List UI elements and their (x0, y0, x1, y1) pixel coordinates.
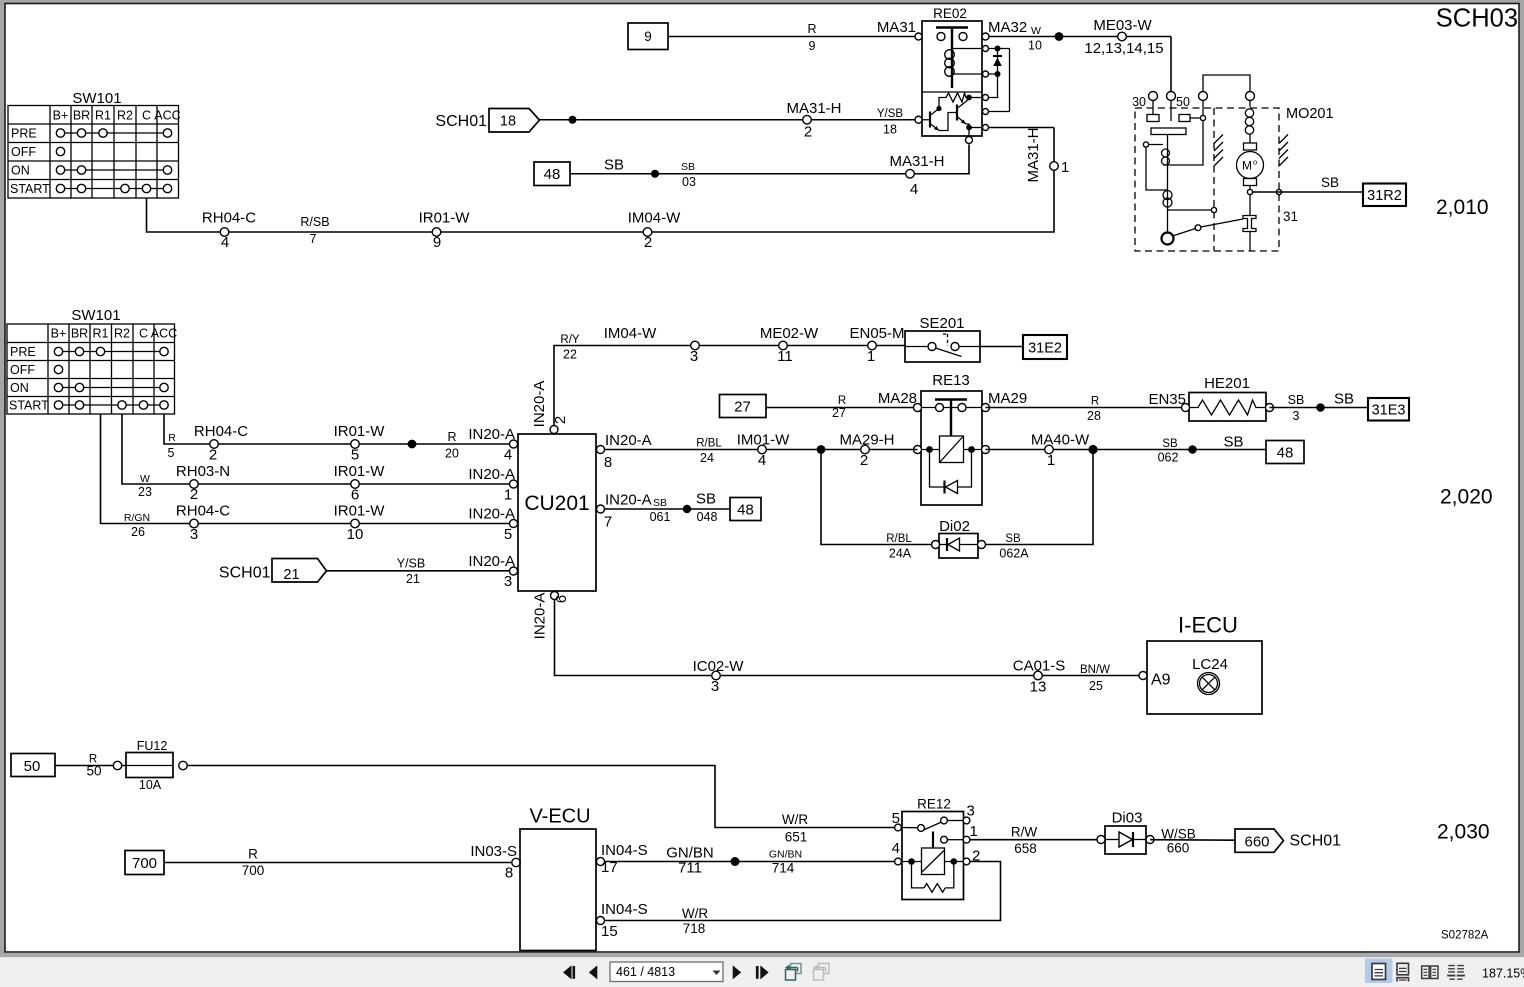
svg-text:3: 3 (190, 526, 198, 543)
starter motor assembly MO201 (1132, 75, 1333, 251)
wire IN20-A / SB 061 from CU201 pin 7 to box 48 (605, 508, 731, 510)
svg-text:ON: ON (10, 381, 29, 395)
RE13 coil (921, 449, 940, 451)
svg-text:SE201: SE201 (919, 315, 964, 332)
svg-text:START: START (9, 399, 49, 413)
SECTION-2030 (11, 739, 1490, 951)
svg-text:R/SB: R/SB (300, 215, 329, 229)
svg-text:IN20-A: IN20-A (468, 553, 515, 570)
svg-text:13: 13 (1030, 679, 1047, 696)
svg-text:7: 7 (310, 232, 317, 246)
RE12 pin 3 (941, 817, 948, 824)
RE12 pin 1 contact (941, 836, 948, 843)
svg-text:Di03: Di03 (1112, 810, 1143, 827)
node RH04-C pin 2 (194, 423, 248, 464)
svg-text:Y/SB: Y/SB (877, 108, 904, 120)
wire label R/BL 24A (886, 533, 912, 561)
MO201 solenoid plunger (1151, 128, 1186, 135)
connector box 27 (720, 395, 767, 418)
MO201 bridge terminals (1199, 92, 1208, 101)
RE12 pin 2 (963, 858, 970, 865)
svg-text:31E2: 31E2 (1028, 341, 1062, 357)
svg-text:5: 5 (504, 526, 512, 543)
svg-text:SB: SB (653, 497, 667, 509)
svg-text:8: 8 (505, 865, 513, 882)
wire R/GN 26 from SW101 R1 to CU201 pin 5 (101, 414, 511, 524)
connector box 48 (ground) (1266, 441, 1304, 464)
svg-text:V-ECU: V-ECU (529, 806, 590, 828)
svg-text:MA31-H: MA31-H (1025, 127, 1042, 182)
svg-text:21: 21 (283, 567, 299, 583)
svg-text:21: 21 (406, 572, 420, 586)
RE02 coil (951, 50, 953, 88)
svg-text:4: 4 (758, 452, 766, 469)
svg-text:OFF: OFF (10, 363, 35, 377)
wire label R/SB 7 (300, 215, 329, 246)
svg-text:30: 30 (1132, 95, 1146, 109)
svg-text:6: 6 (351, 487, 359, 504)
MO201 case ground hatching (1214, 135, 1223, 167)
wire label R 20 (445, 430, 459, 461)
svg-text:IN20-A: IN20-A (468, 466, 515, 483)
relay RE02 (preheating relay) (915, 6, 1054, 144)
svg-text:22: 22 (563, 348, 577, 362)
relay RE13 (glow control relay) (914, 372, 990, 505)
svg-text:R/W: R/W (1011, 825, 1038, 840)
svg-text:18: 18 (883, 123, 897, 137)
pin label IN20-A 5 (468, 506, 517, 544)
svg-text:ON: ON (11, 164, 30, 178)
svg-text:2: 2 (190, 486, 198, 503)
svg-text:RE12: RE12 (917, 797, 951, 812)
svg-text:660: 660 (1244, 834, 1269, 851)
connector box 9 (628, 23, 668, 50)
svg-text:IN20-A: IN20-A (468, 426, 515, 443)
junction dot on W 10 wire (1055, 32, 1064, 41)
svg-text:SB: SB (681, 161, 695, 173)
wire R 28 from RE13 MA29 to HE201 EN35 (986, 396, 1186, 424)
svg-text:4: 4 (221, 234, 229, 251)
junction dot to Di02 branch right (1088, 445, 1097, 454)
wire label W 23 (138, 473, 152, 499)
V-ECU pin 17 (597, 858, 605, 866)
junction dot on SB 061 wire (683, 505, 691, 513)
svg-text:Di02: Di02 (939, 518, 970, 535)
svg-text:28: 28 (1087, 409, 1101, 423)
svg-text:660: 660 (1167, 841, 1190, 856)
svg-text:ACC: ACC (154, 109, 180, 123)
wire down to MO201 terminal 50 (1170, 37, 1172, 92)
svg-text:MA32: MA32 (988, 19, 1027, 36)
RE12 contact blade (902, 827, 922, 829)
svg-text:1: 1 (970, 823, 978, 840)
wire label SB 061 (650, 497, 671, 524)
node IM04-W pin 2 (628, 210, 681, 252)
forward view button (disabled gray) (813, 964, 829, 981)
svg-text:LC24: LC24 (1192, 656, 1228, 673)
svg-text:START: START (10, 182, 50, 196)
wire from SE201 to 31E2 (980, 346, 1023, 348)
svg-text:IR01-W: IR01-W (334, 463, 386, 480)
svg-text:BN/W: BN/W (1080, 664, 1110, 676)
svg-text:651: 651 (785, 830, 808, 845)
wire MA31-H / Y/SB 18 to RE02 (540, 116, 919, 124)
svg-text:SB: SB (1223, 434, 1243, 451)
MO201 fixed contact (1243, 216, 1256, 232)
back view button (teal) (785, 964, 801, 981)
wire W/R 651 from FU12 to RE12 pin 5 (187, 766, 902, 828)
svg-text:3: 3 (1293, 409, 1300, 423)
svg-text:SB: SB (1162, 438, 1178, 450)
svg-text:31: 31 (1283, 209, 1298, 224)
connector box 50 (11, 754, 55, 777)
svg-text:W: W (1031, 25, 1041, 37)
wire label Y/SB 18 (877, 108, 904, 137)
continuous view button (1397, 963, 1409, 981)
node IM01-W pin 4 (737, 432, 790, 470)
svg-text:ME02-W: ME02-W (760, 325, 819, 342)
svg-text:EN05-M: EN05-M (849, 325, 904, 342)
node CA01-S pin 13 (1013, 658, 1066, 696)
switch SE201 (engine oil pressure switch) (905, 315, 980, 362)
svg-text:SCH03: SCH03 (1436, 5, 1518, 33)
previous page button (589, 965, 598, 979)
svg-text:700: 700 (242, 863, 265, 878)
RE12 parallel resistor (912, 865, 954, 888)
node IM04-W pin 3 (604, 325, 700, 365)
svg-text:SB: SB (696, 491, 716, 508)
RE12 pin 4 (895, 858, 902, 865)
svg-text:6: 6 (553, 595, 570, 603)
RE02 transistor Q1 (929, 112, 931, 128)
svg-text:SCH01: SCH01 (435, 113, 487, 130)
svg-text:MO201: MO201 (1286, 106, 1334, 122)
node RH04-C pin 4 (202, 210, 256, 252)
wire R/Y 22 from CU201 pin 2 up to IM04-W run (554, 346, 905, 426)
RE02 suppression diode branch (989, 49, 1010, 112)
svg-text:IN20-A: IN20-A (468, 506, 515, 523)
wire IN20-A / R/BL 24 from CU201 pin 8 to RE13 (605, 449, 918, 451)
svg-text:BR: BR (71, 327, 88, 341)
svg-text:IN04-S: IN04-S (601, 901, 648, 918)
svg-text:9: 9 (433, 234, 441, 251)
connector box 48 (ground) (534, 162, 570, 186)
svg-text:MA28: MA28 (878, 390, 917, 407)
svg-text:711: 711 (678, 860, 702, 877)
svg-text:461 / 4813: 461 / 4813 (616, 965, 675, 979)
svg-text:FU12: FU12 (137, 739, 168, 753)
svg-text:IN20-A: IN20-A (605, 432, 652, 449)
svg-text:RH04-C: RH04-C (202, 210, 256, 227)
connector box 31E2 (1023, 335, 1067, 359)
switch SW101 (upper ignition switch table) (8, 90, 181, 198)
pin label IN20-A 8 (604, 432, 652, 471)
svg-text:IR01-W: IR01-W (334, 423, 386, 440)
svg-text:48: 48 (1277, 445, 1294, 462)
SECTION-2020 (7, 307, 1493, 714)
switch SW101 (lower ignition switch table) (7, 307, 177, 414)
svg-text:18: 18 (500, 114, 516, 130)
wire R 27 from box 27 to RE13 MA28 (766, 395, 918, 420)
node MA31-H pin 2 (786, 100, 841, 141)
svg-text:3: 3 (967, 803, 975, 820)
svg-text:BR: BR (73, 109, 90, 123)
svg-text:IN20-A: IN20-A (605, 492, 652, 509)
svg-text:RE02: RE02 (933, 6, 967, 21)
svg-text:RH04-C: RH04-C (176, 503, 230, 520)
svg-text:5: 5 (351, 447, 359, 464)
RE02 pin circles (915, 33, 922, 40)
ECU I-ECU (instrument ECU) (1139, 613, 1262, 715)
svg-text:SB: SB (1288, 393, 1305, 407)
svg-text:061: 061 (650, 510, 671, 524)
wire SB 03 from box 48 to RE02 bottom pin (570, 145, 969, 190)
node RH04-C pin 3 (176, 503, 230, 544)
svg-text:1: 1 (1061, 159, 1069, 176)
wire Y/SB 21 to CU201 pin 3 (327, 557, 511, 587)
svg-text:2: 2 (804, 124, 812, 141)
svg-text:IR01-W: IR01-W (419, 210, 471, 227)
svg-text:M: M (1242, 159, 1252, 173)
svg-text:48: 48 (737, 502, 754, 519)
svg-text:IN04-S: IN04-S (601, 842, 648, 859)
svg-text:5: 5 (892, 810, 900, 827)
svg-text:SB: SB (1321, 175, 1339, 190)
svg-text:187.15%: 187.15% (1482, 967, 1524, 981)
MO201 hold-in coil (1163, 191, 1172, 200)
MO201 brush 2 (1244, 179, 1257, 186)
CU201 pin 6 (bottom) (551, 592, 559, 600)
svg-text:4: 4 (910, 181, 918, 198)
svg-text:9: 9 (809, 39, 816, 53)
svg-text:25: 25 (1089, 679, 1103, 693)
wire label R/Y 22 (560, 334, 580, 362)
svg-text:48: 48 (544, 166, 561, 183)
fuse FU12 10A (126, 739, 187, 792)
wire W/R 718 from V-ECU pin 15 to RE12 pin 2 (605, 862, 1001, 937)
wire R/W 658 from RE12 pin 1 to Di03 (970, 825, 1101, 857)
junction dot on GN/BN wire (731, 857, 740, 866)
wire R 50 to fuse FU12 (55, 754, 126, 779)
svg-text:R1: R1 (95, 109, 111, 123)
svg-text:31R2: 31R2 (1367, 188, 1402, 204)
svg-text:062A: 062A (999, 547, 1029, 561)
connector box 31E3 (1368, 398, 1409, 421)
svg-text:R/GN: R/GN (124, 512, 150, 524)
RE12 coil (902, 861, 922, 863)
svg-text:C: C (142, 109, 151, 123)
junction dot to Di02 branch (817, 445, 826, 454)
svg-text:Y/SB: Y/SB (397, 557, 426, 571)
svg-text:SCH01: SCH01 (219, 565, 271, 582)
svg-text:PRE: PRE (10, 345, 36, 359)
svg-text:C: C (139, 327, 148, 341)
svg-text:B+: B+ (53, 109, 69, 123)
page number field 461 / 4813 (610, 962, 723, 982)
TOOLBAR (563, 959, 1524, 984)
svg-text:R: R (1091, 396, 1099, 408)
svg-text:2,020: 2,020 (1440, 486, 1493, 509)
svg-text:OFF: OFF (11, 145, 36, 159)
node EN05-M pin 1 (849, 325, 904, 365)
wire W 10 from RE02 MA32 to ME03-W (982, 25, 1171, 53)
MO201 pull-in coil (1162, 149, 1170, 157)
svg-text:SCH01: SCH01 (1290, 833, 1342, 850)
V-ECU pin 15 (597, 917, 605, 925)
wire GN/BN 711 from V-ECU pin 17 to RE12 pin 4 (605, 845, 903, 877)
RE13 suppression diode (930, 450, 972, 488)
svg-text:CU201: CU201 (524, 492, 589, 515)
CU201 pin 7 (right) (597, 505, 605, 513)
svg-text:27: 27 (832, 406, 846, 420)
connector SCH01 18 (pointed box) (435, 109, 539, 133)
wire label SB 062 (1158, 438, 1179, 465)
svg-text:IM04-W: IM04-W (604, 325, 657, 342)
RE02 transistor Q2 (956, 105, 958, 121)
svg-text:26: 26 (131, 525, 145, 539)
node MA29-H pin 2 (839, 432, 894, 470)
svg-text:MA31-H: MA31-H (786, 100, 841, 117)
svg-text:IN03-S: IN03-S (470, 843, 517, 860)
svg-text:SB: SB (1334, 391, 1354, 408)
svg-text:GN/BN: GN/BN (769, 849, 802, 861)
svg-text:2: 2 (860, 452, 868, 469)
svg-text:20: 20 (445, 447, 459, 461)
svg-text:IM04-W: IM04-W (628, 210, 681, 227)
ECU V-ECU (vehicle ECU) (520, 806, 648, 951)
MO201 brush (1244, 143, 1257, 150)
svg-text:31E3: 31E3 (1372, 403, 1406, 419)
svg-text:EN35: EN35 (1148, 391, 1186, 408)
wire W/SB 660 from Di03 to connector 660 (1150, 827, 1235, 856)
svg-text:24: 24 (700, 451, 714, 465)
svg-text:R: R (807, 22, 816, 36)
svg-text:10A: 10A (139, 778, 162, 792)
svg-text:W/R: W/R (782, 812, 808, 827)
svg-text:12,13,14,15: 12,13,14,15 (1084, 40, 1163, 57)
svg-text:RE13: RE13 (932, 372, 970, 389)
MO201 motor M (1237, 152, 1264, 179)
wire MA40-W / SB 062 from RE13 to box 48 (986, 449, 1267, 451)
svg-text:7: 7 (604, 514, 612, 531)
svg-text:R: R (248, 847, 258, 862)
wire label SB 062A (999, 533, 1029, 561)
RE02 internal resistor (939, 93, 982, 103)
pin label IN20-A 7 (604, 492, 652, 531)
svg-text:HE201: HE201 (1204, 375, 1250, 392)
node MA31-H pin 1 (1025, 127, 1069, 182)
svg-text:5: 5 (168, 446, 175, 460)
node IR01-W pin 10 (334, 503, 386, 544)
svg-text:10: 10 (1028, 39, 1042, 53)
connector SCH01 21 (pointed box) (219, 559, 327, 584)
svg-text:1: 1 (504, 487, 512, 504)
svg-text:50: 50 (24, 758, 41, 775)
svg-text:IN20-A: IN20-A (532, 593, 549, 640)
svg-text:048: 048 (697, 510, 718, 524)
svg-text:R/Y: R/Y (560, 334, 580, 346)
wire R 9 from box 9 to RE02 MA31 (668, 22, 918, 53)
node RH03-N pin 2 (176, 463, 230, 503)
CU201 pin 8 (right) (597, 446, 605, 454)
pin label IN20-A 4 (468, 426, 517, 464)
svg-text:S02782A: S02782A (1441, 930, 1489, 942)
svg-text:2,030: 2,030 (1437, 821, 1490, 844)
next page button (733, 965, 742, 979)
RE12 pin 5 (895, 824, 902, 831)
first page button (563, 965, 575, 979)
svg-text:PRE: PRE (11, 127, 37, 141)
svg-text:27: 27 (734, 399, 751, 416)
svg-text:8: 8 (604, 454, 612, 471)
svg-text:4: 4 (504, 447, 512, 464)
connector box 48 (ground) (730, 498, 761, 521)
svg-text:R/BL: R/BL (886, 533, 912, 545)
svg-text:MA31: MA31 (877, 19, 916, 36)
heater HE201 (glow plug) (1182, 375, 1274, 421)
node IC02-W pin 3 (693, 658, 745, 695)
svg-text:3: 3 (504, 573, 512, 590)
node MA31-H pin 4 (889, 153, 944, 198)
wire R 5 from SW101 ACC to CU201 pin 4 (164, 414, 510, 444)
pin label IN20-A 1 (468, 466, 517, 504)
ECU CU201 (timer control unit) (518, 381, 605, 640)
svg-text:SW101: SW101 (71, 307, 120, 324)
two page continuous view button (1447, 966, 1465, 980)
svg-text:A9: A9 (1151, 672, 1171, 689)
svg-text:RH03-N: RH03-N (176, 463, 230, 480)
svg-text:50: 50 (86, 764, 101, 779)
svg-text:4: 4 (892, 840, 900, 857)
connector box 700 (125, 851, 164, 875)
MO201 field winding (1249, 101, 1251, 108)
two page view button (1422, 966, 1438, 979)
svg-text:W/R: W/R (682, 906, 708, 921)
MO201 terminal 30 (1132, 92, 1157, 110)
RE02 output stub to MA31-H 1 (989, 127, 1055, 129)
junction dot on R 20 wire (408, 440, 417, 449)
MO201 moving contact lever (1162, 233, 1174, 245)
junction dot before box 48 (1188, 445, 1197, 454)
svg-text:50: 50 (1176, 95, 1190, 109)
single page view button (active) (1365, 959, 1393, 984)
node IR01-W pin 9 (419, 210, 471, 252)
svg-text:W/SB: W/SB (1161, 827, 1196, 842)
svg-text:2: 2 (972, 848, 980, 865)
svg-text:11: 11 (777, 348, 793, 365)
svg-text:o: o (1253, 158, 1257, 167)
node IR01-W pin 5 (334, 423, 386, 464)
SECTION-2010 (8, 5, 1518, 252)
svg-text:R2: R2 (117, 109, 133, 123)
node IR01-W pin 6 (334, 463, 386, 504)
svg-text:SB: SB (604, 157, 624, 174)
svg-text:R1: R1 (93, 327, 109, 341)
svg-text:24A: 24A (889, 547, 912, 561)
svg-text:718: 718 (683, 921, 706, 936)
wire label R/BL 24 (696, 438, 722, 466)
connector box 31R2 (1363, 184, 1406, 207)
svg-text:700: 700 (132, 855, 157, 872)
svg-text:ME03-W: ME03-W (1093, 17, 1152, 34)
svg-text:R/BL: R/BL (696, 438, 722, 450)
wire label GN/BN 714 (769, 849, 802, 876)
last page button (756, 965, 769, 979)
pin label IN03-S 8 (470, 843, 520, 882)
svg-text:15: 15 (601, 923, 618, 940)
wire IC02-W from CU201 pin 6 to I-ECU (555, 600, 1140, 676)
svg-text:3: 3 (711, 678, 719, 695)
